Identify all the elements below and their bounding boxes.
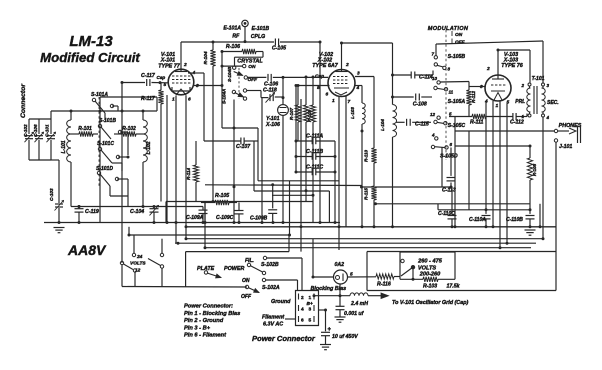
svg-text:C-101: C-101	[45, 124, 50, 137]
svg-text:POWER: POWER	[224, 266, 244, 272]
svg-text:E-101B: E-101B	[252, 26, 270, 32]
svg-text:C-111C: C-111C	[306, 165, 323, 171]
svg-text:6: 6	[326, 92, 329, 98]
svg-text:4: 4	[301, 307, 304, 313]
svg-text:R-102: R-102	[122, 126, 136, 132]
svg-text:C-107: C-107	[236, 144, 251, 150]
svg-text:C-102: C-102	[23, 124, 28, 137]
svg-text:LM-13: LM-13	[69, 33, 113, 50]
svg-text:5: 5	[309, 318, 312, 324]
svg-text:PRI.: PRI.	[515, 99, 525, 105]
svg-text:R-116: R-116	[377, 282, 391, 288]
svg-text:L-104: L-104	[380, 119, 385, 131]
svg-text:R-101: R-101	[78, 126, 92, 132]
svg-text:12: 12	[135, 268, 141, 274]
svg-text:Ground: Ground	[271, 299, 291, 305]
svg-text:C-117: C-117	[141, 73, 156, 79]
svg-text:L-101: L-101	[61, 140, 67, 153]
svg-text:R-105: R-105	[215, 193, 229, 199]
svg-text:R-107: R-107	[289, 107, 294, 120]
svg-text:Blocking Bias: Blocking Bias	[311, 286, 347, 292]
svg-text:S-102A: S-102A	[262, 285, 280, 291]
svg-text:1: 1	[172, 97, 175, 103]
svg-text:R-111: R-111	[470, 120, 483, 126]
svg-text:Pin 2 - Ground: Pin 2 - Ground	[184, 318, 224, 324]
svg-text:J-101: J-101	[559, 144, 572, 150]
svg-text:Cap: Cap	[315, 74, 324, 80]
svg-text:200-260: 200-260	[419, 271, 441, 277]
svg-text:R-117: R-117	[141, 96, 156, 102]
svg-text:L-103: L-103	[350, 107, 355, 119]
svg-text:S-105B: S-105B	[448, 54, 466, 60]
svg-text:R-110: R-110	[364, 150, 369, 162]
svg-text:4: 4	[546, 115, 550, 120]
svg-text:1: 1	[309, 295, 312, 301]
svg-text:To V-101 Oscillator Grid (Cap): To V-101 Oscillator Grid (Cap)	[392, 300, 468, 306]
svg-text:C-109C: C-109C	[216, 215, 234, 221]
svg-text:C-111A: C-111A	[306, 134, 323, 140]
svg-text:C-109A: C-109A	[186, 215, 204, 221]
svg-text:C-111B: C-111B	[306, 149, 323, 155]
svg-text:MODULATION: MODULATION	[428, 26, 469, 32]
svg-text:Pin 1 - Blocking Bias: Pin 1 - Blocking Bias	[184, 311, 240, 317]
svg-text:OFF: OFF	[241, 294, 252, 300]
svg-text:R-115: R-115	[364, 188, 369, 200]
svg-text:C-113: C-113	[442, 188, 456, 194]
svg-text:Pin 3 - B+: Pin 3 - B+	[184, 325, 211, 331]
svg-text:C-110C: C-110C	[438, 211, 455, 217]
svg-text:CRYSTAL: CRYSTAL	[237, 58, 263, 64]
svg-text:S-104B: S-104B	[227, 66, 232, 82]
svg-text:C-119: C-119	[85, 209, 99, 215]
svg-text:C-108: C-108	[413, 102, 427, 108]
svg-text:C-115: C-115	[415, 122, 429, 128]
svg-text:2: 2	[183, 62, 187, 68]
svg-text:Cap: Cap	[157, 75, 166, 80]
svg-text:X-106: X-106	[265, 122, 280, 128]
svg-text:Filament: Filament	[262, 315, 284, 321]
svg-text:Connector: Connector	[20, 84, 27, 118]
svg-text:24: 24	[136, 254, 143, 260]
svg-text:C-106: C-106	[33, 124, 38, 137]
svg-text:4: 4	[431, 133, 435, 138]
svg-text:R-112: R-112	[471, 91, 476, 103]
svg-text:2: 2	[486, 66, 490, 72]
svg-text:6: 6	[188, 97, 191, 103]
svg-text:11: 11	[449, 90, 454, 95]
svg-text:Power Connector: Power Connector	[252, 334, 316, 343]
svg-text:TYPE 76: TYPE 76	[501, 63, 524, 69]
svg-text:6.3V AC: 6.3V AC	[263, 322, 283, 328]
svg-text:0A2: 0A2	[335, 262, 345, 268]
svg-text:E-101A: E-101A	[223, 26, 241, 32]
svg-text:R-108: R-108	[532, 163, 537, 176]
svg-text:10: 10	[432, 76, 438, 81]
svg-text:1: 1	[332, 98, 335, 104]
svg-text:Pin 6 - Filament: Pin 6 - Filament	[184, 333, 227, 339]
svg-text:3: 3	[357, 71, 360, 77]
svg-text:1: 1	[496, 103, 499, 109]
svg-text:10 uf 450V: 10 uf 450V	[332, 334, 358, 340]
svg-text:C-105: C-105	[272, 46, 286, 52]
svg-text:C-110B: C-110B	[506, 217, 523, 223]
svg-text:2: 2	[301, 295, 304, 301]
svg-text:ON: ON	[455, 32, 463, 38]
svg-text:AA8V: AA8V	[67, 242, 107, 258]
svg-text:2: 2	[345, 62, 349, 68]
svg-text:S-101C: S-101C	[97, 141, 114, 147]
svg-text:260 - 475: 260 - 475	[417, 259, 443, 265]
svg-text:7: 7	[348, 99, 351, 105]
svg-text:S-101B: S-101B	[99, 118, 116, 124]
svg-text:S-104A: S-104A	[222, 89, 227, 104]
svg-text:S-102B: S-102B	[261, 262, 279, 268]
svg-text:B+: B+	[307, 301, 313, 307]
svg-text:C-112: C-112	[510, 120, 524, 126]
svg-text:R-106: R-106	[226, 44, 240, 50]
svg-text:R-103: R-103	[423, 284, 437, 290]
svg-text:OFF: OFF	[455, 40, 466, 46]
svg-text:6: 6	[301, 318, 304, 324]
svg-text:T-101: T-101	[532, 76, 545, 82]
svg-text:0.001 uf: 0.001 uf	[344, 311, 365, 317]
svg-text:C-110A: C-110A	[469, 217, 486, 223]
svg-text:17.5k: 17.5k	[447, 284, 461, 290]
svg-text:TYPE 77: TYPE 77	[158, 64, 181, 70]
svg-text:Modified Circuit: Modified Circuit	[40, 50, 140, 65]
svg-text:TYPE 6A7: TYPE 6A7	[312, 63, 338, 69]
svg-text:R-114: R-114	[186, 168, 191, 180]
svg-text:C-109B: C-109B	[250, 216, 268, 222]
svg-text:ON: ON	[248, 64, 256, 70]
svg-text:C-104: C-104	[130, 209, 144, 215]
svg-text:2.4 mH: 2.4 mH	[350, 301, 368, 307]
svg-text:12: 12	[430, 112, 436, 117]
svg-text:C-103: C-103	[49, 188, 54, 201]
svg-text:R-104: R-104	[203, 51, 209, 64]
svg-text:CPLG: CPLG	[251, 34, 265, 40]
svg-text:Power Connector:: Power Connector:	[184, 304, 233, 310]
svg-text:S-105C: S-105C	[448, 123, 466, 129]
svg-text:S-101A: S-101A	[91, 92, 108, 98]
svg-text:SEC.: SEC.	[547, 100, 559, 106]
svg-text:S-105A: S-105A	[448, 99, 466, 105]
svg-text:2: 2	[520, 83, 524, 88]
svg-text:3: 3	[309, 307, 312, 313]
svg-text:L-102: L-102	[146, 141, 152, 154]
svg-text:VOLTS: VOLTS	[130, 261, 146, 267]
svg-text:RF: RF	[232, 33, 240, 39]
svg-text:ON: ON	[242, 278, 250, 284]
